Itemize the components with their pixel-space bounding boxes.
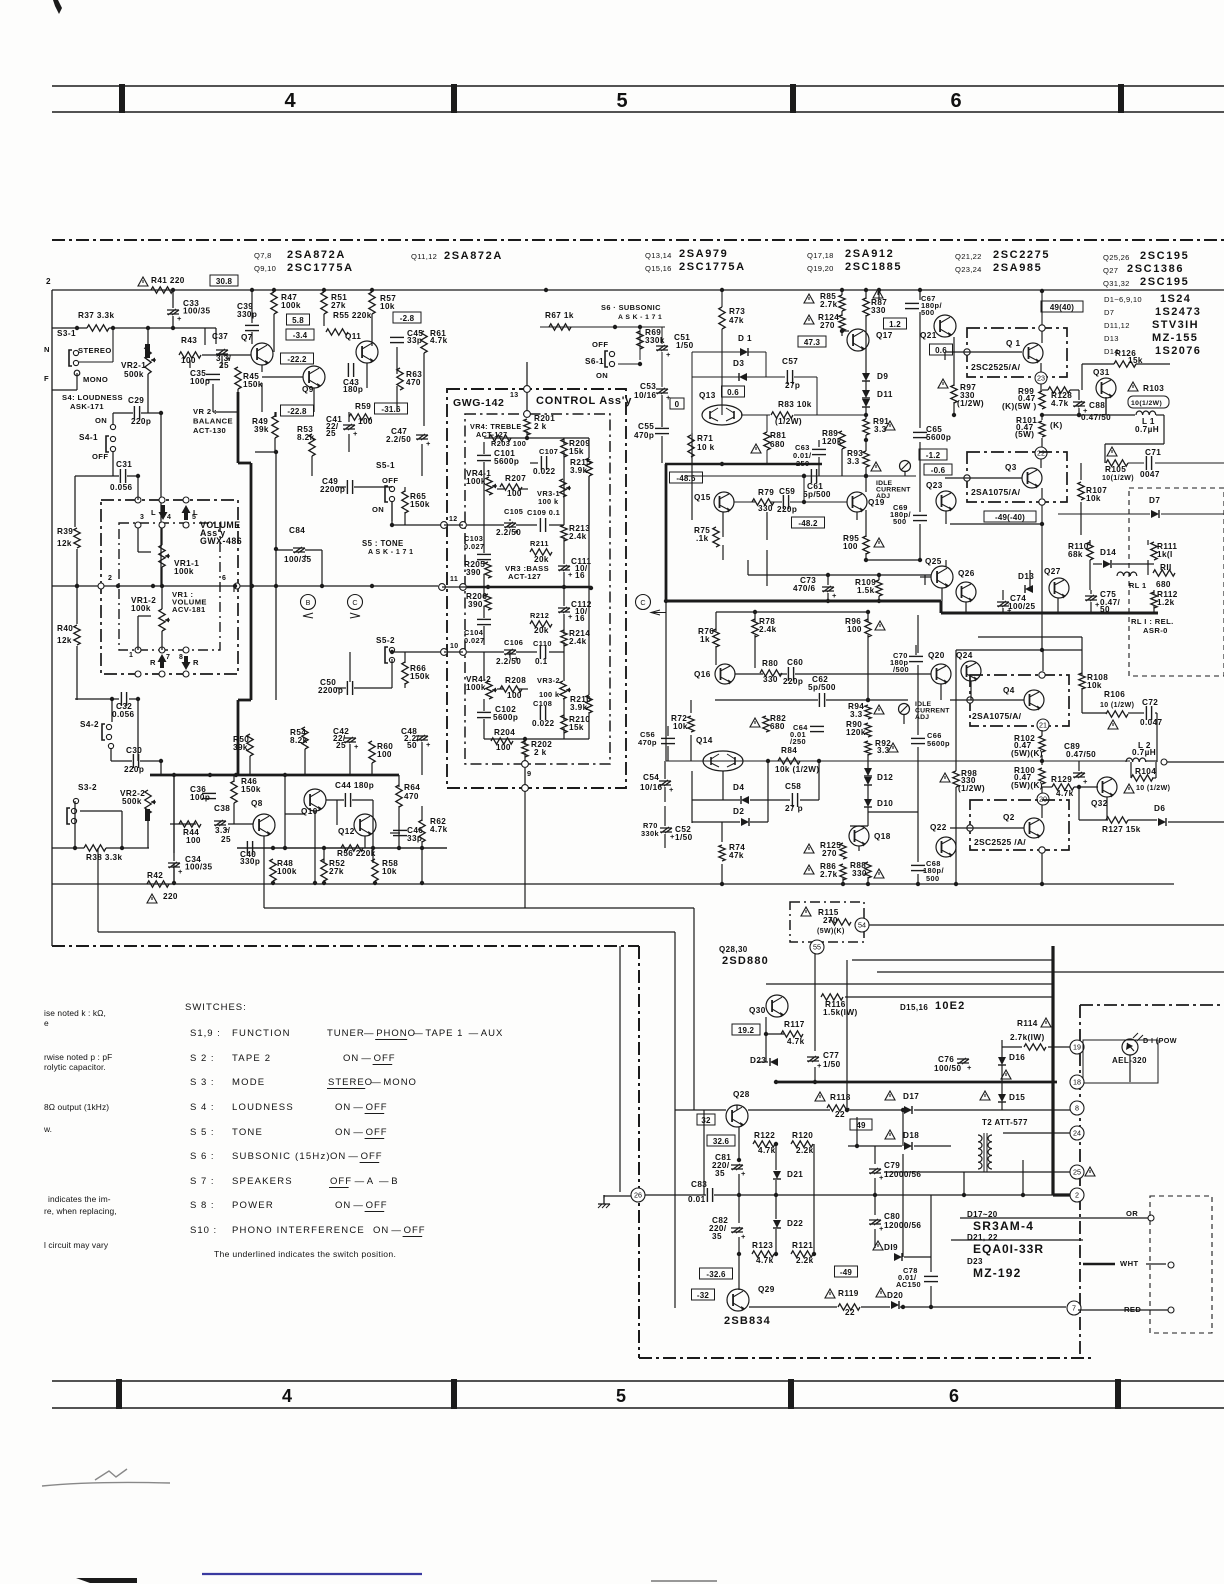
resistor R72 bbox=[671, 714, 694, 732]
svg-text:D15: D15 bbox=[1009, 1093, 1025, 1102]
wire psu v left bbox=[674, 932, 676, 1308]
warning mark R87 warn bbox=[873, 289, 883, 298]
svg-text:100: 100 bbox=[377, 750, 392, 759]
wire mirror horizontal 3 bbox=[352, 799, 373, 801]
wire D14 wire bbox=[1093, 563, 1102, 565]
svg-text:10k: 10k bbox=[382, 867, 397, 876]
svg-text:R114: R114 bbox=[1017, 1019, 1038, 1028]
resistor R96 bbox=[845, 617, 871, 637]
wire left extra v 1 bbox=[323, 314, 325, 326]
wire rail mid left bbox=[666, 760, 1042, 762]
wire left extra v 13 bbox=[137, 476, 139, 500]
svg-text:55: 55 bbox=[813, 943, 821, 952]
svg-text:100: 100 bbox=[843, 542, 858, 551]
wire left extra v 27 bbox=[391, 659, 393, 688]
svg-text:+: + bbox=[426, 740, 431, 749]
wire C29 drop bbox=[160, 413, 162, 586]
svg-text:—: — bbox=[413, 1028, 424, 1039]
device type label Q7,8 bbox=[254, 249, 346, 261]
junction mirror j bbox=[373, 881, 377, 885]
wire amp vertical 31 bbox=[878, 290, 880, 300]
junction amp j bbox=[954, 882, 958, 886]
Q4 box pin top bbox=[1039, 672, 1045, 678]
warning mark psu warn right bbox=[1085, 1167, 1095, 1176]
wire left extra v 19 bbox=[274, 412, 276, 417]
wire left extra v 4 bbox=[261, 365, 263, 372]
wire psu h 1307 bbox=[749, 1306, 837, 1308]
capacitor C41 bbox=[326, 415, 358, 438]
connector circle RED bbox=[1168, 1307, 1174, 1313]
legend row S7 bbox=[190, 1176, 399, 1188]
svg-text:-49: -49 bbox=[840, 1268, 853, 1277]
capacitor C58 bbox=[792, 793, 797, 807]
resistor R95 bbox=[843, 534, 869, 554]
potentiometer VR1-2 bbox=[131, 596, 170, 631]
wire pin10 wire b bbox=[516, 651, 537, 653]
voltage label 30.8 callout bbox=[210, 275, 238, 286]
wire vr1-1 top bbox=[161, 528, 163, 545]
svg-text:SUBSONIC (15Hz): SUBSONIC (15Hz) bbox=[232, 1151, 331, 1162]
capacitor C55 bbox=[638, 422, 669, 434]
wire mirror vertical 20 bbox=[421, 742, 423, 775]
wire left extra v 17 bbox=[348, 412, 350, 422]
junction psu j bbox=[774, 1142, 778, 1146]
junction psu j bbox=[929, 1305, 933, 1309]
assembly box Q1 box bbox=[967, 328, 1067, 377]
transistor Q13 bbox=[699, 391, 742, 425]
warning mark D16 warn bbox=[1001, 1070, 1011, 1079]
wire amp vertical 57 bbox=[664, 834, 666, 848]
wire amp vertical 41 bbox=[867, 785, 869, 799]
voltage label -31.6 callout bbox=[375, 403, 408, 414]
svg-text:DI9: DI9 bbox=[884, 1243, 898, 1252]
svg-text:S1,9 :: S1,9 : bbox=[190, 1028, 221, 1039]
svg-text:10k: 10k bbox=[1086, 494, 1101, 503]
svg-text:2.4k: 2.4k bbox=[569, 532, 587, 541]
svg-text:S4-1: S4-1 bbox=[79, 433, 98, 442]
device type label D13 bbox=[1104, 332, 1198, 344]
svg-text:2.2/50: 2.2/50 bbox=[496, 657, 521, 666]
junction amp j bbox=[802, 474, 806, 478]
svg-text:100: 100 bbox=[358, 417, 373, 426]
transistor Q14 bbox=[696, 736, 743, 771]
svg-text:Q12: Q12 bbox=[338, 827, 355, 836]
svg-text:0.6: 0.6 bbox=[727, 388, 739, 397]
wire gwg vertical 27 bbox=[524, 753, 526, 761]
wire C34 stub bbox=[173, 775, 175, 861]
warning mark R88 warn bbox=[874, 869, 884, 878]
junction s6 j1 bbox=[613, 325, 617, 329]
svg-text:10 (1/2W): 10 (1/2W) bbox=[1100, 702, 1134, 709]
svg-text:5600p: 5600p bbox=[494, 457, 519, 466]
wire amp vertical 42 bbox=[867, 807, 869, 826]
transistor Q24 bbox=[956, 651, 981, 682]
wire amp vertical 1 bbox=[691, 433, 693, 520]
svg-text:R56 220k: R56 220k bbox=[337, 849, 376, 858]
warning mark R114 warn bbox=[1041, 1018, 1051, 1027]
svg-text:2: 2 bbox=[108, 575, 112, 582]
svg-text:0.022: 0.022 bbox=[533, 467, 556, 476]
wire gwg bus bbox=[467, 586, 591, 589]
svg-text:100: 100 bbox=[507, 691, 522, 700]
potentiometer VR2-2 bbox=[120, 789, 156, 814]
switch S3-1 frame bbox=[74, 328, 113, 376]
wire Q3 bottom bbox=[1041, 505, 1043, 560]
wire R81 stub bbox=[766, 415, 768, 432]
junction left extra j bbox=[370, 584, 374, 588]
resistor R40 bbox=[57, 624, 80, 645]
svg-text:1: 1 bbox=[129, 652, 133, 659]
wire d1 corner v bbox=[765, 352, 767, 377]
connector dashed box bbox=[1150, 1196, 1212, 1333]
svg-text:100 k: 100 k bbox=[538, 497, 559, 506]
wire amp vertical 23 bbox=[841, 449, 843, 476]
svg-text:C79: C79 bbox=[884, 1161, 900, 1170]
svg-text:R106: R106 bbox=[1104, 690, 1125, 699]
resistor R116 bbox=[821, 994, 846, 1009]
svg-text:Q20: Q20 bbox=[928, 651, 945, 660]
wire amp horizontal 4 bbox=[920, 576, 931, 578]
wire C71 line bbox=[1128, 462, 1144, 464]
wire psu v 875b bbox=[874, 1178, 876, 1195]
wire R73 stub2 bbox=[721, 329, 723, 415]
junction vol j1 bbox=[75, 584, 79, 588]
junction psu j bbox=[774, 1080, 778, 1084]
wire R128 wire b bbox=[1070, 389, 1079, 391]
svg-text:330p: 330p bbox=[240, 857, 260, 866]
svg-text:8Ω output (1kHz): 8Ω output (1kHz) bbox=[44, 1102, 109, 1112]
wire Q32 emitter bbox=[1106, 797, 1108, 820]
svg-text:1.5k(IW): 1.5k(IW) bbox=[823, 1008, 858, 1017]
wire R126 wire b bbox=[1136, 363, 1170, 365]
resistor R46 bbox=[231, 777, 257, 803]
svg-text:11: 11 bbox=[450, 576, 458, 583]
wire left extra v 12 bbox=[274, 438, 276, 452]
svg-text:R: R bbox=[150, 658, 156, 667]
capacitor C47 bbox=[391, 427, 431, 448]
wire psu h red2 bbox=[1078, 1309, 1168, 1311]
svg-text:220p: 220p bbox=[124, 765, 144, 774]
junction mirror j bbox=[283, 773, 287, 777]
wire D14 wire b bbox=[1112, 563, 1154, 565]
wire thick signal v1 bbox=[237, 392, 240, 463]
svg-text:A: A bbox=[367, 1176, 374, 1187]
svg-text:D21: D21 bbox=[787, 1170, 803, 1179]
svg-text:Q28,30: Q28,30 bbox=[719, 945, 748, 954]
svg-text:10k: 10k bbox=[1087, 681, 1102, 690]
svg-text:R39: R39 bbox=[57, 527, 73, 536]
svg-text:330: 330 bbox=[763, 675, 778, 684]
wire amp vertical 51 bbox=[690, 735, 692, 761]
warning mark R125 warn bbox=[804, 844, 814, 853]
svg-text:GWG-142: GWG-142 bbox=[453, 397, 504, 409]
pin pin 25 bbox=[1070, 1165, 1084, 1179]
svg-text:47.3: 47.3 bbox=[804, 338, 821, 347]
diode D14 bbox=[1100, 548, 1116, 568]
svg-text:Q31,32: Q31,32 bbox=[1103, 279, 1130, 288]
svg-text:180p: 180p bbox=[343, 385, 363, 394]
wire left extra v 26 bbox=[391, 502, 393, 525]
junction left extra j bbox=[151, 584, 155, 588]
svg-text:R129: R129 bbox=[1051, 775, 1072, 784]
wire q15 wire c bbox=[790, 501, 847, 503]
capacitor C31 bbox=[116, 460, 132, 483]
svg-text:D12: D12 bbox=[877, 773, 893, 782]
svg-text:SPEAKERS: SPEAKERS bbox=[232, 1176, 293, 1187]
junction mirror j bbox=[234, 773, 238, 777]
svg-text:2.7k: 2.7k bbox=[820, 870, 838, 879]
capacitor C105 bbox=[504, 522, 519, 536]
warning mark R92 warn bbox=[888, 743, 898, 752]
pin pin 22 bbox=[1035, 447, 1047, 459]
svg-text:C37: C37 bbox=[212, 332, 228, 341]
section border top bbox=[52, 239, 1224, 241]
svg-text:SR3AM-4: SR3AM-4 bbox=[973, 1219, 1034, 1233]
wire psu v 739 bbox=[738, 1127, 740, 1160]
pin 9b circle bbox=[522, 785, 529, 792]
wire psu v 875c bbox=[874, 1195, 876, 1215]
resistor R211 bbox=[530, 549, 552, 555]
svg-text:Q17,18: Q17,18 bbox=[807, 251, 834, 260]
wire gwg horizontal 6 bbox=[518, 688, 528, 690]
svg-text:+: + bbox=[177, 314, 182, 323]
wire VR2-1 bottom bbox=[147, 374, 149, 413]
junction amp j bbox=[720, 882, 724, 886]
svg-text:C109 0.1: C109 0.1 bbox=[527, 508, 560, 517]
wire L2 wire bbox=[1146, 760, 1157, 762]
wire s6 v3 bbox=[661, 352, 663, 387]
svg-text:R37 3.3k: R37 3.3k bbox=[78, 311, 114, 320]
wire psu h r114b bbox=[1002, 1046, 1022, 1048]
wire left extra v 28 bbox=[404, 487, 406, 492]
svg-text:0.7µH: 0.7µH bbox=[1132, 748, 1156, 757]
junction R201 j bbox=[525, 436, 529, 440]
transistor Q21 bbox=[920, 315, 956, 340]
wire mirror vertical 3 bbox=[233, 803, 235, 824]
svg-text:—: — bbox=[353, 1200, 364, 1211]
svg-text:1/50: 1/50 bbox=[823, 1060, 841, 1069]
assembly pin bbox=[159, 522, 165, 528]
capacitor C59 bbox=[779, 487, 795, 509]
resistor R111b bbox=[1153, 570, 1175, 576]
svg-text:B: B bbox=[306, 598, 311, 607]
svg-text:EQA0I-33R: EQA0I-33R bbox=[973, 1242, 1044, 1256]
svg-text:18: 18 bbox=[1073, 1078, 1081, 1087]
device type label D11,12 bbox=[1104, 319, 1199, 331]
wire C73 stub b bbox=[827, 593, 829, 601]
svg-text:100/50: 100/50 bbox=[934, 1064, 961, 1073]
wire gwg horizontal 4 bbox=[444, 651, 463, 653]
svg-text:rwise noted p : pF: rwise noted p : pF bbox=[44, 1052, 112, 1062]
svg-text:C84: C84 bbox=[289, 526, 305, 535]
svg-text:D21, 22: D21, 22 bbox=[967, 1233, 998, 1242]
svg-text:S5 : TONE: S5 : TONE bbox=[362, 539, 404, 548]
resistor R115h bbox=[829, 919, 851, 925]
svg-text:0.1: 0.1 bbox=[535, 657, 548, 666]
svg-text:150k: 150k bbox=[410, 672, 430, 681]
capacitor C74 bbox=[997, 594, 1026, 615]
junction y575 jb bbox=[877, 573, 881, 577]
svg-text:1k(I: 1k(I bbox=[1157, 550, 1173, 559]
pin pin 23 bbox=[1035, 372, 1047, 384]
svg-text:0.056: 0.056 bbox=[110, 483, 133, 492]
junction psu j bbox=[845, 1108, 849, 1112]
svg-text:R43: R43 bbox=[181, 336, 197, 345]
Q3 box pin left bbox=[964, 475, 970, 481]
svg-text:-48.6: -48.6 bbox=[676, 474, 696, 483]
svg-text:Q25: Q25 bbox=[925, 557, 942, 566]
capacitor C75 bbox=[1085, 590, 1116, 609]
wire y650 wire bbox=[956, 649, 1082, 651]
device type label Q17,18 bbox=[807, 248, 894, 260]
junction j3 bbox=[322, 288, 326, 292]
svg-text:/250: /250 bbox=[790, 737, 806, 746]
svg-text:2SA872A: 2SA872A bbox=[287, 249, 346, 261]
wire left extra h 4 bbox=[392, 651, 441, 653]
wire amp vertical 63 bbox=[1041, 755, 1043, 761]
legend row S10 bbox=[190, 1225, 426, 1237]
wire amp vertical 0 bbox=[661, 395, 663, 427]
resistor R52 bbox=[321, 859, 345, 881]
wire amp vertical 64 bbox=[1041, 761, 1043, 765]
Q4 box pin left bbox=[967, 697, 973, 703]
capacitor C109 bbox=[540, 518, 545, 532]
svg-text:R123: R123 bbox=[752, 1241, 773, 1250]
svg-text:/500: /500 bbox=[893, 665, 909, 674]
wire amp vertical 35 bbox=[754, 635, 756, 668]
junction amp j bbox=[840, 329, 844, 333]
svg-text:Q26: Q26 bbox=[958, 569, 975, 578]
svg-text:Q11: Q11 bbox=[345, 332, 361, 341]
svg-text:26: 26 bbox=[634, 1191, 642, 1200]
svg-text:100k: 100k bbox=[131, 604, 151, 613]
wire amp vertical 30 bbox=[904, 472, 906, 476]
wire left extra v 5 bbox=[261, 383, 263, 412]
wire gwg vertical 7 bbox=[483, 652, 485, 681]
svg-text:Q4: Q4 bbox=[1003, 686, 1015, 695]
svg-text:23: 23 bbox=[1037, 374, 1045, 383]
wire psu v 1002c bbox=[1001, 1102, 1003, 1110]
svg-text:12: 12 bbox=[449, 516, 458, 523]
svg-text:-49(-40): -49(-40) bbox=[995, 513, 1025, 522]
wire thick signal jog2 bbox=[238, 699, 251, 702]
svg-text:22: 22 bbox=[1037, 449, 1045, 458]
transistor Q1 bbox=[1006, 339, 1043, 364]
svg-text:330: 330 bbox=[852, 869, 867, 878]
capacitor C106 bbox=[504, 649, 519, 663]
svg-text:T2 ATT-577: T2 ATT-577 bbox=[982, 1118, 1028, 1127]
junction left col j bbox=[75, 584, 79, 588]
svg-text:RL I : REL.: RL I : REL. bbox=[1131, 617, 1174, 626]
wire Q32 line c bbox=[1128, 819, 1157, 821]
junction amp j bbox=[864, 288, 868, 292]
wire gwg vertical 18 bbox=[563, 652, 565, 681]
svg-text:0.7µH: 0.7µH bbox=[1135, 425, 1159, 434]
warning mark R106 warn bbox=[1108, 720, 1118, 729]
wire psu v 847 bbox=[846, 960, 848, 1110]
wire x748 v bbox=[747, 560, 749, 575]
wire C30 stub bbox=[110, 749, 112, 761]
transistor Q7 bbox=[241, 333, 273, 365]
wire R83 wire bbox=[741, 414, 770, 416]
junction out j2 bbox=[1040, 413, 1044, 417]
wire fb drop bbox=[803, 476, 805, 502]
wire left extra v 34 bbox=[275, 412, 277, 417]
svg-text:220p: 220p bbox=[777, 505, 797, 514]
svg-text:2.2k: 2.2k bbox=[796, 1256, 814, 1265]
junction amp j bbox=[864, 413, 868, 417]
voltage label -22.8 callout bbox=[281, 405, 314, 416]
wire R128 wire bbox=[1042, 389, 1048, 391]
wire amp vertical 72 bbox=[1089, 560, 1091, 590]
pin 12b circle bbox=[460, 522, 467, 529]
wire left extra h 9 bbox=[202, 354, 251, 356]
svg-text:100: 100 bbox=[507, 489, 522, 498]
svg-text:(1/2W): (1/2W) bbox=[957, 399, 984, 408]
resistor R79 bbox=[752, 488, 774, 505]
wire Q32 line bbox=[1078, 787, 1080, 820]
svg-text:5p/500: 5p/500 bbox=[803, 490, 831, 499]
svg-text:OFF: OFF bbox=[366, 1200, 388, 1211]
junction mirror j bbox=[271, 846, 275, 850]
legend row S3 bbox=[190, 1077, 417, 1089]
svg-text:Q15,16: Q15,16 bbox=[645, 264, 672, 273]
svg-text:25: 25 bbox=[1073, 1168, 1081, 1177]
wire left extra v 32 bbox=[349, 652, 351, 682]
wire gwg vertical 5 bbox=[483, 606, 485, 618]
svg-text:STV3IH: STV3IH bbox=[1152, 319, 1199, 331]
svg-text:TAPE 1: TAPE 1 bbox=[425, 1028, 463, 1039]
capacitor C50 bbox=[320, 678, 353, 695]
wire amp vertical 52 bbox=[667, 726, 669, 736]
wire thick bus lower bbox=[666, 600, 941, 603]
resistor R106 bbox=[1104, 690, 1128, 717]
resistor R208 bbox=[500, 676, 526, 692]
svg-text:STEREO: STEREO bbox=[328, 1077, 373, 1088]
wire D3 wire b bbox=[747, 376, 785, 378]
inductor L2 bbox=[1126, 741, 1151, 762]
svg-text:ON: ON bbox=[95, 416, 107, 425]
svg-text:+: + bbox=[967, 1063, 972, 1072]
wire R102 stub bbox=[1041, 730, 1043, 736]
resistor R55 bbox=[326, 329, 348, 335]
wire psu v 903 bbox=[902, 1110, 904, 1146]
power supply border right bbox=[1079, 1005, 1081, 1358]
R channel arrow 2 bbox=[182, 656, 200, 670]
resistor R118 bbox=[827, 1093, 851, 1111]
voltage label 0 callout bbox=[670, 398, 684, 409]
wire gwg horizontal 5 bbox=[497, 688, 504, 690]
wire amp vertical 78 bbox=[941, 588, 943, 601]
svg-text:2.4k: 2.4k bbox=[759, 625, 777, 634]
capacitor C44 bbox=[335, 781, 374, 807]
wire output y444 bbox=[1105, 443, 1164, 445]
wire pin10 wire c bbox=[549, 651, 564, 653]
resistor R215 bbox=[570, 458, 592, 476]
svg-text:Q24: Q24 bbox=[956, 651, 973, 660]
wire pin9 drop bbox=[524, 791, 526, 908]
wire mirror vertical 21 bbox=[233, 586, 235, 592]
svg-text:5600p: 5600p bbox=[493, 713, 518, 722]
svg-text:(1/2W): (1/2W) bbox=[958, 784, 985, 793]
junction C30 j bbox=[159, 759, 163, 763]
wire left col v2 bbox=[76, 549, 78, 586]
wire psu h 1307b bbox=[861, 1306, 890, 1308]
voltage label -49(-40) callout bbox=[984, 511, 1036, 522]
pin pin 19 bbox=[1070, 1040, 1084, 1054]
wire amp horizontal 3 bbox=[1168, 821, 1224, 823]
svg-text:8.2k: 8.2k bbox=[290, 736, 308, 745]
